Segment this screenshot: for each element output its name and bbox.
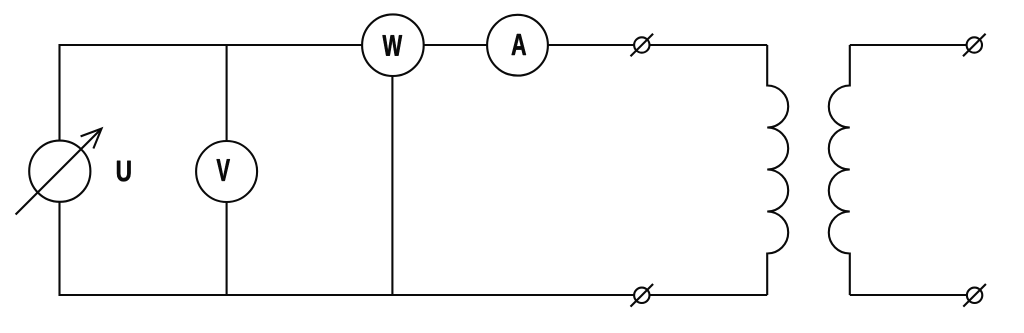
terminal top left pair xyxy=(634,37,649,52)
terminal bottom left pair xyxy=(634,288,649,303)
wire left bottom (source to bottom rail) xyxy=(60,202,635,296)
terminal secondary bottom xyxy=(967,288,982,303)
wire secondary top xyxy=(850,44,967,46)
label U xyxy=(117,161,131,182)
label W xyxy=(383,35,403,56)
wire top left (source to wattmeter) xyxy=(60,45,363,141)
ammeter A circle xyxy=(487,15,548,76)
wire bottom terminal to primary coil xyxy=(650,294,768,296)
transformer primary winding xyxy=(767,45,788,295)
wire ammeter to top terminal xyxy=(548,44,635,46)
transformer secondary winding xyxy=(829,45,850,295)
label V xyxy=(217,159,230,181)
wire wattmeter voltage coil branch xyxy=(391,76,393,295)
wire voltmeter branch bottom xyxy=(226,202,228,295)
wire voltmeter branch top xyxy=(226,45,228,141)
wire top terminal to primary coil xyxy=(650,44,768,46)
terminal secondary top xyxy=(967,37,982,52)
wattmeter W circle xyxy=(362,14,424,76)
wire secondary bottom xyxy=(850,294,967,296)
source U (circle with diagonal arrow) xyxy=(29,141,90,202)
wire wattmeter to ammeter xyxy=(423,44,487,46)
voltmeter V circle xyxy=(196,141,257,202)
label A xyxy=(512,34,526,55)
